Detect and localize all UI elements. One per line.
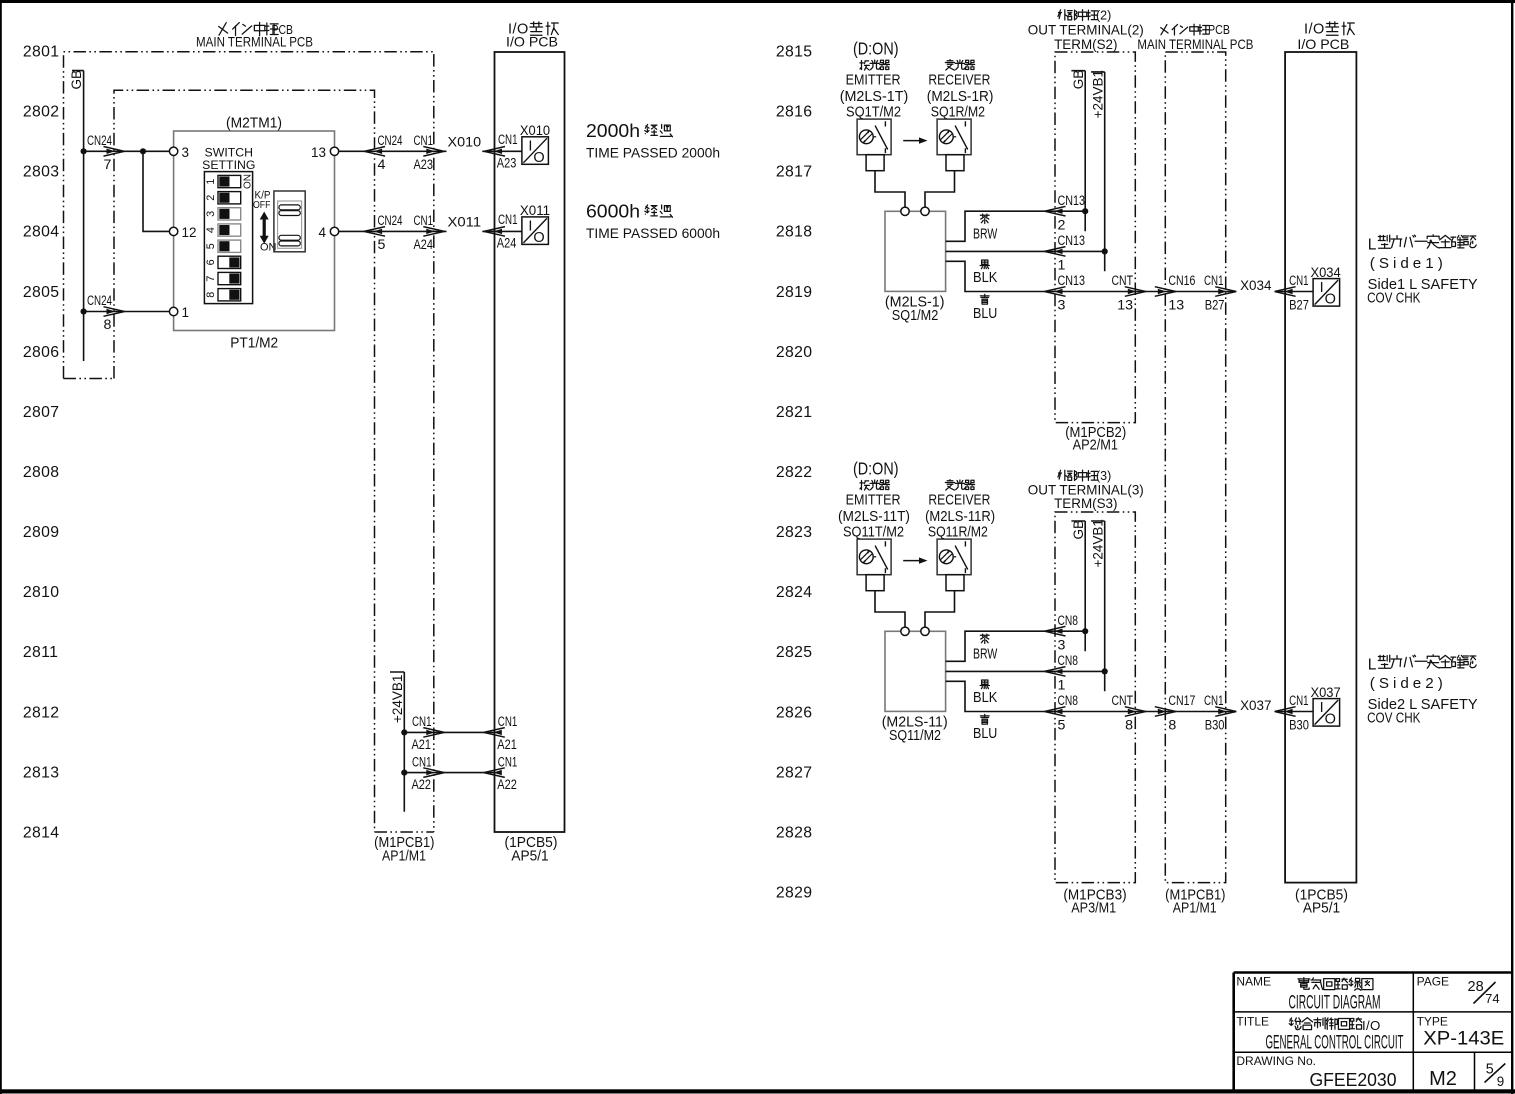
connector CN13 pin 1 arrow [1054, 249, 1063, 254]
svg-text:BLK: BLK [973, 690, 998, 706]
svg-text:CN1: CN1 [412, 754, 432, 770]
component M2LS-11 limit switch box [885, 631, 946, 711]
main terminal PCB boundary (left, dash-dot region) [64, 52, 434, 832]
svg-text:DRAWING No.: DRAWING No. [1236, 1054, 1316, 1068]
net +24VB1 (Side1) [1091, 72, 1105, 271]
svg-text:2821: 2821 [776, 404, 813, 421]
wire 2812: +24VB1 to I/O PCB CN1 A21 [404, 731, 494, 733]
svg-text:I: I [1320, 700, 1324, 716]
svg-text:GB: GB [69, 70, 84, 90]
svg-text:(M2LS-1R): (M2LS-1R) [927, 89, 994, 105]
svg-text:CN8: CN8 [1058, 653, 1079, 669]
svg-text:(Side2): (Side2) [1370, 675, 1447, 692]
connector CN17 pin 8 arrow [1158, 709, 1167, 714]
net +24VB1 (left) [390, 672, 404, 812]
wire BLU: M2LS through to I/O PCB X037 [946, 681, 1314, 711]
title block [1234, 973, 1512, 1091]
svg-text:BLK: BLK [973, 270, 998, 286]
svg-text:A23: A23 [414, 157, 434, 173]
svg-text:2807: 2807 [23, 404, 60, 421]
svg-text:BLU: BLU [973, 726, 997, 742]
connector CN8 pin 3 arrow [1054, 629, 1063, 634]
svg-text:I/O: I/O [1362, 1018, 1381, 1033]
connector CN1 A21 arrow (M1PCB1 side) [426, 730, 435, 735]
svg-text:5: 5 [1058, 718, 1066, 734]
svg-text:1: 1 [1058, 677, 1066, 693]
terminal circle pin 12 [169, 227, 177, 235]
connector CN1 A24 arrow at I/O PCB [494, 229, 503, 234]
receiver sensor SQ11R/M2 [945, 480, 954, 490]
page border frame [0, 0, 1515, 3]
svg-text:2: 2 [205, 195, 217, 201]
connector CN1 A23 arrow at I/O PCB [494, 149, 503, 154]
junction on GB line 2803 [81, 148, 87, 154]
svg-text:I: I [528, 138, 532, 154]
svg-text:OFF: OFF [253, 199, 271, 211]
svg-text:CN1: CN1 [498, 132, 518, 148]
svg-text:(M2LS-11R): (M2LS-11R) [925, 509, 995, 525]
svg-text:EMITTER: EMITTER [846, 72, 901, 88]
label: main terminal PCB (right) [1161, 25, 1168, 35]
svg-text:COV CHK: COV CHK [1367, 711, 1421, 727]
wire 2803: GB to PT1/M2 pin 3 [84, 150, 170, 152]
svg-text:GFEE2030: GFEE2030 [1310, 1070, 1397, 1090]
svg-text:O: O [1325, 292, 1336, 308]
svg-text:2811: 2811 [23, 644, 58, 661]
svg-text:CNT: CNT [1112, 693, 1134, 709]
svg-text:CN24: CN24 [378, 133, 403, 149]
svg-text:SQ1R/M2: SQ1R/M2 [931, 104, 985, 120]
svg-text:X034: X034 [1240, 277, 1272, 293]
wire 2813: +24VB1 to I/O PCB CN1 A22 [404, 772, 494, 774]
svg-text:B30: B30 [1289, 718, 1309, 734]
connector CNT pin 13 arrow [1128, 289, 1137, 294]
label: out terminal (3) [1058, 470, 1067, 480]
svg-text:2816: 2816 [776, 104, 813, 121]
connector CN1 A21 arrow (1PCB5 side) [493, 730, 502, 735]
svg-text:8: 8 [1168, 718, 1176, 734]
svg-text:(D:ON): (D:ON) [853, 459, 899, 479]
emitter sensor SQ11T/M2 [860, 480, 869, 490]
wire emitter to M2LS box [875, 591, 905, 627]
connector CN8 pin 1 arrow [1054, 669, 1063, 674]
svg-text:GB: GB [1071, 520, 1086, 540]
svg-text:SQ11/M2: SQ11/M2 [889, 728, 941, 744]
light beam arrow [903, 140, 921, 142]
svg-text:X034: X034 [1311, 265, 1341, 280]
svg-text:X011: X011 [520, 203, 550, 218]
svg-text:2817: 2817 [776, 164, 813, 181]
svg-text:CN8: CN8 [1058, 693, 1079, 709]
svg-text:A22: A22 [497, 777, 517, 793]
svg-text:CN16: CN16 [1168, 273, 1195, 289]
net GB (Side1) [1071, 71, 1085, 232]
svg-text:2825: 2825 [776, 644, 813, 661]
label brown BRW [980, 634, 989, 643]
svg-text:CN17: CN17 [1168, 693, 1195, 709]
svg-text:2829: 2829 [776, 885, 813, 902]
svg-text:1: 1 [182, 305, 190, 320]
wire BLK: M2LS to CN13 pin 1 [946, 250, 1105, 252]
svg-text:MAIN TERMINAL PCB: MAIN TERMINAL PCB [196, 34, 313, 50]
out terminal (2) boundary box [1055, 52, 1135, 423]
wire into X010 [495, 150, 522, 152]
svg-text:5: 5 [205, 243, 217, 249]
svg-text:CN1: CN1 [414, 133, 434, 149]
svg-text:B30: B30 [1205, 718, 1225, 734]
svg-text:2824: 2824 [776, 584, 813, 601]
svg-text:L: L [1368, 236, 1377, 253]
svg-text:TERM(S3): TERM(S3) [1054, 495, 1117, 511]
svg-text:TIME PASSED 2000h: TIME PASSED 2000h [586, 145, 720, 161]
component M2LS-1 limit switch box [885, 211, 946, 291]
node line numbers 2801-2814 (left column) [23, 44, 60, 842]
K/P selector arrow and labels [253, 190, 277, 254]
svg-text:I: I [528, 218, 532, 234]
svg-text:SQ1/M2: SQ1/M2 [892, 308, 939, 324]
title: general control circuit [1289, 1018, 1301, 1030]
connector CN16 pin 13 arrow [1158, 289, 1167, 294]
connector CN1 pin A24 arrow (right) [426, 229, 435, 234]
svg-text:I/O PCB: I/O PCB [1297, 36, 1349, 52]
svg-text:TIME PASSED 6000h: TIME PASSED 6000h [586, 225, 720, 241]
svg-text:13: 13 [1117, 298, 1133, 314]
svg-text:X037: X037 [1240, 697, 1272, 713]
svg-text:X010: X010 [448, 135, 482, 150]
terminal circle pin 4 [330, 227, 338, 235]
svg-text:4: 4 [378, 157, 386, 173]
junction to GB [1082, 628, 1088, 634]
junction on GB line 2805 [81, 308, 87, 314]
svg-text:7: 7 [205, 276, 217, 282]
receiver sensor SQ1R/M2 [945, 60, 954, 70]
label: main terminal PCB (left) [219, 23, 228, 35]
main terminal PCB boundary (right) [1165, 52, 1225, 883]
svg-text:2819: 2819 [776, 284, 813, 301]
connector CNT pin 8 arrow [1128, 709, 1137, 714]
net GB (left) [72, 71, 84, 361]
DIP switch SW1 block [202, 145, 255, 303]
junction node 2803 branch [140, 148, 146, 154]
svg-text:CN13: CN13 [1058, 273, 1086, 289]
svg-text:4: 4 [205, 227, 217, 233]
svg-text:COV CHK: COV CHK [1367, 291, 1421, 307]
wire 2804: pin4 to I/O PCB (X011) [339, 230, 495, 232]
I/O PCB box (right) [1285, 52, 1356, 883]
I/O PCB box (left) [495, 52, 565, 832]
svg-text:ON: ON [243, 174, 254, 189]
svg-text:I/O PCB: I/O PCB [506, 34, 558, 50]
label black BLK [980, 260, 989, 269]
connector CN1 A22 arrow (M1PCB1 side) [426, 770, 435, 775]
svg-text:+24VB1: +24VB1 [1090, 519, 1105, 567]
terminal circle pin 13 [330, 147, 338, 155]
wire BRW: M2LS to CN13 pin 2 [946, 211, 1086, 241]
terminal circles on M2LS box [901, 207, 909, 215]
svg-text:AP3/M1: AP3/M1 [1071, 901, 1116, 917]
connector CN24 pin 4 arrow (left) [374, 149, 383, 154]
svg-text:BLU: BLU [973, 306, 997, 322]
svg-text:RECEIVER: RECEIVER [928, 492, 990, 508]
svg-text:5: 5 [378, 237, 386, 253]
svg-text:8: 8 [205, 292, 217, 298]
svg-text:SQ11T/M2: SQ11T/M2 [843, 524, 904, 540]
wire emitter to M2LS box [875, 171, 905, 207]
svg-text:(D:ON): (D:ON) [853, 39, 899, 59]
net +24VB1 (Side2) [1091, 521, 1105, 691]
svg-text:PT1/M2: PT1/M2 [230, 336, 278, 352]
svg-text:I: I [1320, 280, 1324, 296]
svg-text:CN24: CN24 [87, 133, 112, 149]
svg-text:CNT: CNT [1112, 273, 1134, 289]
svg-text:6000h: 6000h [586, 201, 640, 222]
junction to +24VB1 [1102, 248, 1108, 254]
svg-text:L: L [1368, 656, 1377, 673]
svg-text:CIRCUIT DIAGRAM: CIRCUIT DIAGRAM [1289, 993, 1381, 1014]
connector CN24 pin 7 arrow [107, 149, 116, 154]
svg-text:O: O [533, 150, 544, 166]
svg-text:AP1/M1: AP1/M1 [382, 849, 426, 865]
connector CN13 pin 2 arrow [1054, 209, 1063, 214]
svg-text:EMITTER: EMITTER [846, 492, 901, 508]
terminal circle pin 1 [169, 307, 177, 315]
svg-text:(M2TM1): (M2TM1) [226, 116, 282, 132]
svg-text:BRW: BRW [973, 227, 998, 243]
wire receiver to M2LS box [925, 171, 955, 207]
svg-text:2815: 2815 [776, 44, 813, 61]
junction to GB [1082, 208, 1088, 214]
svg-text:CN24: CN24 [378, 213, 403, 229]
svg-text:2805: 2805 [23, 284, 60, 301]
svg-text:+24VB1: +24VB1 [1090, 70, 1105, 118]
svg-text:(M2LS-1T): (M2LS-1T) [840, 89, 909, 105]
terminal circle pin 3 [169, 147, 177, 155]
svg-text:2000h: 2000h [586, 120, 640, 141]
svg-text:CN1: CN1 [414, 213, 434, 229]
svg-text:A22: A22 [412, 777, 432, 793]
svg-text:3: 3 [1058, 637, 1066, 653]
svg-text:SQ11R/M2: SQ11R/M2 [928, 524, 988, 540]
svg-text:CN13: CN13 [1058, 193, 1086, 209]
svg-text:SETTING: SETTING [202, 158, 255, 172]
wire 2805: GB to PT1/M2 pin 1 [84, 311, 170, 313]
svg-text:12: 12 [182, 225, 197, 240]
svg-text:2: 2 [1058, 217, 1066, 233]
svg-text:A24: A24 [414, 237, 434, 253]
svg-text:2810: 2810 [23, 584, 60, 601]
svg-text:CN24: CN24 [87, 293, 112, 309]
svg-text:CN1: CN1 [498, 754, 518, 770]
svg-text:2809: 2809 [23, 524, 60, 541]
connector CN1 pin A23 arrow (right) [426, 149, 435, 154]
svg-text:CN1: CN1 [498, 212, 518, 228]
svg-text:AP2/M1: AP2/M1 [1073, 438, 1118, 454]
wire receiver to M2LS box [925, 591, 955, 627]
svg-text:AP5/1: AP5/1 [1303, 901, 1340, 917]
rocker switch graphic [274, 191, 305, 252]
wire 2803: pin13 to I/O PCB (X010) [339, 150, 495, 152]
svg-text:A21: A21 [497, 737, 517, 753]
svg-text:2801: 2801 [23, 44, 60, 61]
svg-text:(Side1): (Side1) [1370, 255, 1447, 272]
connector CN24 pin 5 arrow (left) [374, 229, 383, 234]
svg-text:28: 28 [1468, 979, 1484, 995]
svg-text:3: 3 [205, 211, 217, 217]
svg-text:2806: 2806 [23, 344, 60, 361]
svg-text:2822: 2822 [776, 464, 813, 481]
svg-text:A21: A21 [412, 737, 432, 753]
out terminal (3) boundary box [1055, 512, 1135, 883]
svg-text:CN13: CN13 [1058, 233, 1086, 249]
svg-text:AP1/M1: AP1/M1 [1173, 901, 1217, 917]
connector CN1 A22 arrow (1PCB5 side) [493, 770, 502, 775]
svg-text:MAIN TERMINAL PCB: MAIN TERMINAL PCB [1137, 36, 1253, 52]
svg-text:CN1: CN1 [1204, 273, 1224, 289]
svg-text:4: 4 [318, 225, 326, 240]
svg-text:SQ1T/M2: SQ1T/M2 [846, 104, 901, 120]
component PT1/M2 terminal box (M2TM1) [174, 131, 335, 331]
svg-text:2828: 2828 [776, 824, 813, 841]
svg-text:A23: A23 [497, 156, 517, 172]
svg-text:2827: 2827 [776, 764, 813, 781]
svg-text:13: 13 [1168, 298, 1184, 314]
svg-text:1: 1 [1058, 257, 1066, 273]
svg-text:NAME: NAME [1236, 975, 1271, 989]
svg-text:+24VB1: +24VB1 [390, 675, 405, 723]
svg-text:2812: 2812 [23, 704, 60, 721]
svg-text:9: 9 [1497, 1074, 1504, 1089]
light beam arrow [903, 560, 921, 562]
svg-text:3: 3 [1058, 298, 1066, 314]
svg-text:PCB: PCB [1208, 23, 1230, 37]
wire branch to pin 12 [143, 151, 169, 231]
svg-text:A24: A24 [497, 236, 517, 252]
svg-text:2804: 2804 [23, 224, 60, 241]
svg-text:O: O [1325, 712, 1336, 728]
svg-text:M2: M2 [1429, 1068, 1457, 1090]
svg-text:TITLE: TITLE [1236, 1014, 1269, 1028]
connector CN1 B30 arrow at I/O PCB [1284, 709, 1293, 714]
title: circuit diagram (name) [1298, 978, 1310, 990]
svg-text:2803: 2803 [23, 164, 60, 181]
label black BLK [980, 680, 989, 689]
wire BLK: M2LS to CN8 pin 1 [946, 670, 1105, 672]
svg-text:AP5/1: AP5/1 [511, 849, 548, 865]
svg-text:X010: X010 [520, 123, 550, 138]
wire into X011 [495, 230, 522, 232]
svg-text:8: 8 [104, 317, 112, 333]
svg-text:2820: 2820 [776, 344, 813, 361]
svg-text:2813: 2813 [23, 764, 60, 781]
connector CN8 pin 5 arrow [1054, 709, 1063, 714]
svg-text:(M2LS-11T): (M2LS-11T) [838, 509, 910, 525]
svg-text:BRW: BRW [973, 647, 998, 663]
svg-text:2823: 2823 [776, 524, 813, 541]
svg-text:74: 74 [1485, 991, 1499, 1006]
svg-text:TYPE: TYPE [1417, 1014, 1448, 1028]
svg-text:TERM(S2): TERM(S2) [1054, 36, 1117, 52]
svg-text:B27: B27 [1289, 298, 1309, 314]
svg-text:2818: 2818 [776, 224, 813, 241]
label brown BRW [980, 214, 989, 223]
connector CN1 pin B30 arrow [1218, 709, 1227, 714]
svg-text:CN1: CN1 [1289, 693, 1309, 709]
svg-text:2802: 2802 [23, 104, 60, 121]
svg-text:2826: 2826 [776, 704, 813, 721]
svg-text:CN1: CN1 [498, 714, 518, 730]
svg-text:X011: X011 [448, 215, 482, 230]
connector CN1 B27 arrow at I/O PCB [1284, 289, 1293, 294]
label: out terminal (2) [1058, 10, 1067, 20]
svg-text:B27: B27 [1205, 298, 1225, 314]
wire BRW: M2LS to CN8 pin 3 [946, 631, 1086, 661]
terminal circles on M2LS box [901, 627, 909, 635]
svg-text:13: 13 [311, 145, 326, 160]
svg-text:XP-143E: XP-143E [1423, 1029, 1504, 1050]
svg-text:GENERAL CONTROL CIRCUIT: GENERAL CONTROL CIRCUIT [1266, 1032, 1404, 1053]
node line numbers 2815-2829 (right column) [776, 44, 813, 902]
wire BLU: M2LS through to I/O PCB X034 [946, 261, 1314, 291]
label blue BLU [980, 714, 989, 724]
connector CN1 pin B27 arrow [1218, 289, 1227, 294]
net GB (Side2) [1071, 521, 1085, 651]
svg-text:RECEIVER: RECEIVER [928, 72, 990, 88]
svg-text:2808: 2808 [23, 464, 60, 481]
svg-text:O: O [533, 230, 544, 246]
svg-text:2814: 2814 [23, 824, 60, 841]
svg-text:PAGE: PAGE [1417, 975, 1449, 989]
label blue BLU [980, 294, 989, 304]
svg-text:6: 6 [205, 259, 217, 265]
svg-text:X037: X037 [1311, 685, 1341, 700]
connector CN13 pin 3 arrow [1054, 289, 1063, 294]
svg-text:CN1: CN1 [1289, 273, 1309, 289]
connector CN24 pin 8 arrow [107, 309, 116, 314]
svg-text:CN1: CN1 [412, 714, 432, 730]
svg-text:7: 7 [104, 157, 112, 173]
junction to +24VB1 [1102, 668, 1108, 674]
emitter sensor SQ1T/M2 [860, 60, 869, 70]
svg-text:CN8: CN8 [1058, 613, 1079, 629]
svg-text:CN1: CN1 [1204, 693, 1224, 709]
svg-text:3: 3 [182, 145, 190, 160]
svg-text:8: 8 [1125, 718, 1133, 734]
svg-text:GB: GB [1071, 70, 1086, 90]
svg-text:1: 1 [205, 179, 217, 185]
